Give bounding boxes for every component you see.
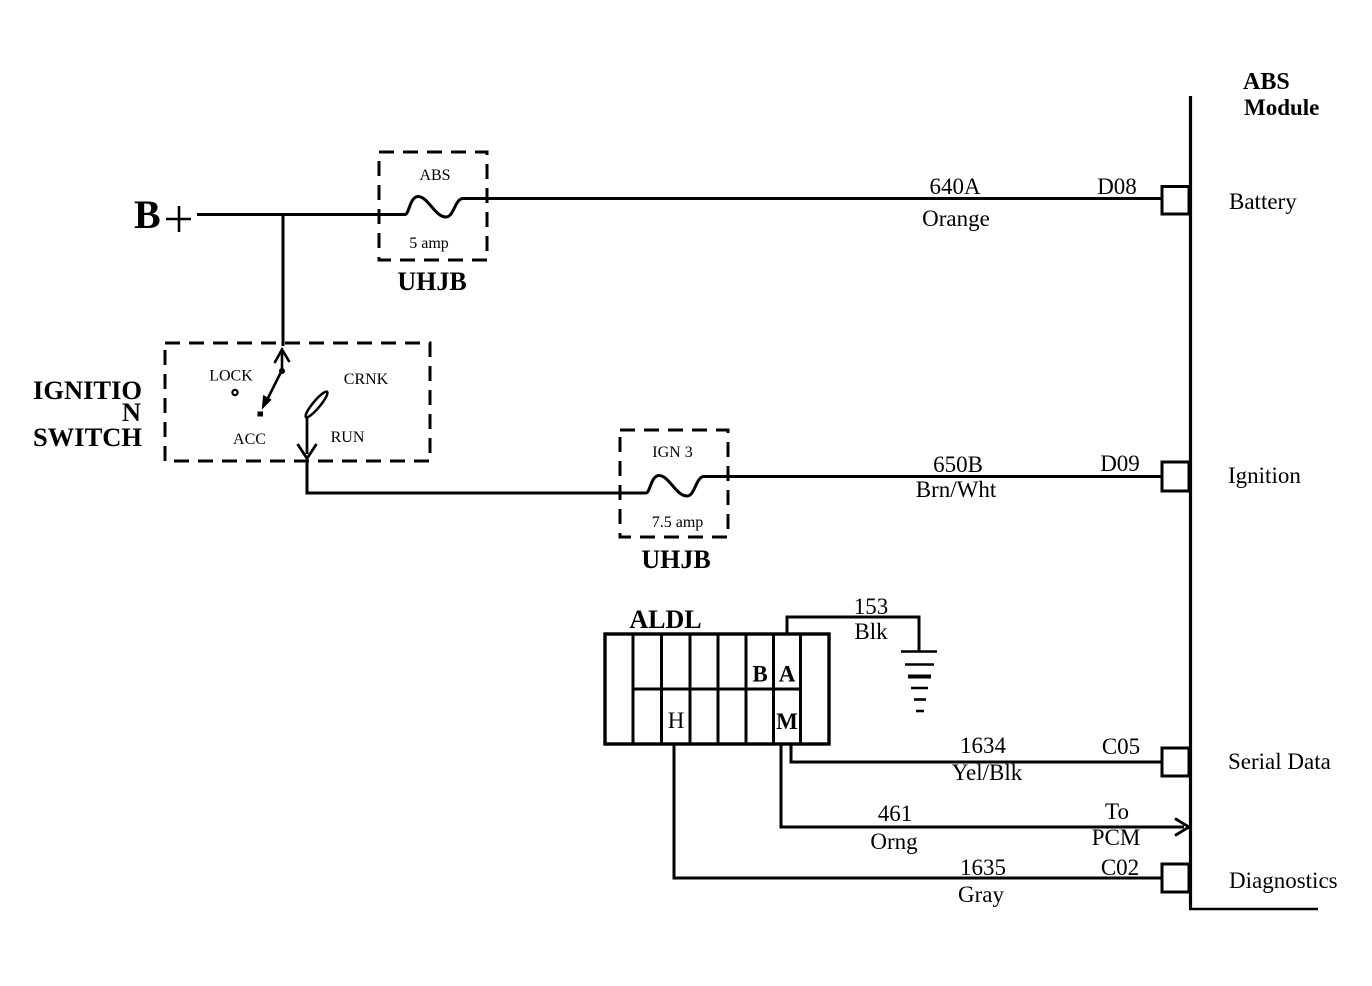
svg-text:Gray: Gray: [958, 882, 1004, 907]
svg-text:D08: D08: [1097, 174, 1137, 199]
svg-text:B: B: [134, 192, 161, 237]
svg-text:ACC: ACC: [233, 431, 266, 448]
RUN feed arrow (down): [298, 418, 317, 459]
svg-text:PCM: PCM: [1092, 825, 1141, 850]
svg-text:461: 461: [878, 801, 913, 826]
pin D08 connector box: [1162, 187, 1189, 215]
pin D09 connector box: [1162, 462, 1189, 491]
svg-text:UHJB: UHJB: [397, 267, 466, 296]
svg-text:Ignition: Ignition: [1228, 463, 1301, 488]
arrow to PCM: [1175, 819, 1189, 836]
ignition switch box: [165, 343, 430, 461]
svg-text:1635: 1635: [960, 855, 1006, 880]
ignition switch label: [33, 375, 142, 452]
wire 640A to ABS module: [463, 197, 1162, 200]
fuse ABS 5 amp (UHJB): [379, 152, 487, 260]
svg-text:A: A: [779, 662, 796, 687]
svg-text:ABS: ABS: [1243, 69, 1290, 95]
pin C05 connector box: [1162, 748, 1189, 776]
fuse IGN 3 7.5 amp (UHJB): [620, 430, 728, 537]
svg-text:RUN: RUN: [331, 429, 365, 446]
ABS module bottom edge: [1189, 908, 1318, 911]
svg-text:H: H: [668, 708, 685, 733]
svg-text:5 amp: 5 amp: [409, 235, 449, 252]
svg-text:UHJB: UHJB: [641, 545, 710, 574]
switch lever loop (key): [303, 390, 330, 420]
svg-text:Serial Data: Serial Data: [1228, 749, 1331, 774]
wire B+ to fuse ABS: [197, 213, 405, 216]
svg-text:ALDL: ALDL: [629, 605, 701, 634]
svg-text:B: B: [752, 662, 767, 687]
svg-text:650B: 650B: [933, 452, 983, 477]
ground symbol: [901, 652, 937, 712]
svg-text:Yel/Blk: Yel/Blk: [952, 760, 1023, 785]
svg-text:CRNK: CRNK: [344, 371, 389, 388]
svg-text:LOCK: LOCK: [209, 368, 253, 385]
svg-text:7.5 amp: 7.5 amp: [652, 514, 704, 531]
svg-text:1634: 1634: [960, 733, 1007, 758]
svg-text:Brn/Wht: Brn/Wht: [916, 477, 997, 502]
svg-text:C05: C05: [1102, 734, 1140, 759]
svg-text:M: M: [776, 709, 798, 734]
wire 153 Blk to ground: [787, 617, 919, 651]
svg-text:Orange: Orange: [922, 206, 990, 231]
switch wiper arrow (up toward feed): [263, 350, 290, 408]
svg-text:153: 153: [854, 594, 889, 619]
wire 1634 Yel/Blk to ABS module: [791, 744, 1162, 762]
svg-text:Blk: Blk: [854, 619, 888, 644]
svg-text:D09: D09: [1100, 451, 1140, 476]
svg-text:C02: C02: [1101, 855, 1139, 880]
wire switch to fuse IGN 3: [307, 461, 620, 493]
svg-text:640A: 640A: [929, 174, 981, 199]
LOCK position dot: [232, 390, 237, 395]
svg-text:ABS: ABS: [419, 167, 450, 184]
svg-text:Orng: Orng: [870, 829, 918, 854]
ALDL connector: [605, 634, 829, 744]
wire junction down to ignition switch: [282, 215, 285, 347]
wire 650B to ABS module: [704, 475, 1162, 478]
pin C02 connector box: [1162, 864, 1189, 892]
node B+ battery feed: [134, 192, 191, 237]
svg-text:Module: Module: [1244, 95, 1319, 120]
ACC position mark: [258, 412, 264, 417]
wire 461 Orng to PCM: [781, 744, 1184, 827]
ABS module header: [1243, 69, 1319, 120]
svg-text:Battery: Battery: [1229, 189, 1297, 214]
svg-text:Diagnostics: Diagnostics: [1229, 868, 1338, 893]
svg-text:IGN 3: IGN 3: [652, 444, 692, 461]
ABS module boundary line: [1189, 96, 1192, 909]
wire 1635 Gray to ABS module: [674, 744, 1162, 878]
svg-text:SWITCH: SWITCH: [33, 422, 142, 452]
svg-text:To: To: [1105, 799, 1129, 824]
